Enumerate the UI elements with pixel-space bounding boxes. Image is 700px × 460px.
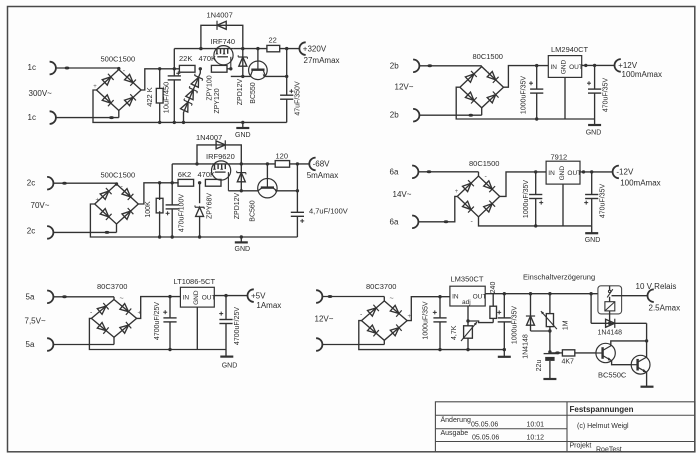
svg-text:LT1086-5CT: LT1086-5CT	[174, 277, 216, 286]
zener ZPD12V (circuit 3)	[240, 164, 242, 191]
wire - regulator ground lead (circuit 2)	[564, 77, 566, 119]
resistor 470K	[211, 65, 227, 72]
wire - pot to bottom rail (circuit 6)	[467, 338, 469, 349]
wire - bridge right corner to top rail (circuit 4)	[500, 172, 546, 197]
capacitor 470uF/100V	[171, 181, 174, 184]
wire - output rail (circuit 6)	[485, 293, 598, 295]
svg-text:5a: 5a	[26, 340, 35, 349]
svg-text:1N4007: 1N4007	[196, 133, 222, 142]
svg-text:GND: GND	[559, 166, 566, 181]
wire - rail to output terminal (circuit 1)	[280, 48, 300, 50]
svg-text:+12V: +12V	[618, 61, 638, 70]
ground (below output cap, circuit 6)	[503, 350, 505, 357]
svg-text:470uF/35V: 470uF/35V	[600, 184, 607, 219]
wire - top input to bridge (circuit 6)	[323, 296, 385, 298]
svg-text:6a: 6a	[390, 218, 399, 227]
svg-text:+: +	[455, 189, 459, 195]
svg-text:300V~: 300V~	[29, 89, 53, 98]
wire - top rail source side (circuit 1)	[233, 48, 267, 50]
wire - relay branch vertical (circuit 6)	[589, 292, 592, 295]
wire - relay output (circuit 6)	[612, 295, 648, 297]
capacitor 1000uF/35V (circuit 2)	[535, 64, 538, 67]
wire - bridge bottom stub (circuit 6)	[383, 340, 385, 344]
svg-text:+320V: +320V	[303, 45, 327, 54]
svg-text:12V~: 12V~	[315, 315, 334, 324]
svg-text:80C1500: 80C1500	[469, 159, 499, 168]
transistor BC550 (circuit 1)	[256, 47, 259, 50]
svg-text:22K: 22K	[179, 54, 192, 63]
wire - bridge top stub (circuit 6)	[383, 297, 385, 302]
transistor BC550C (first)	[596, 343, 615, 362]
svg-text:1000uF/35V: 1000uF/35V	[511, 306, 518, 344]
ground (transistor, circuit 6)	[641, 386, 654, 388]
svg-text:100mAmax: 100mAmax	[622, 70, 662, 79]
resistor 470K (circuit 3)	[205, 179, 221, 186]
wire - bottom input to bridge (circuit 3)	[54, 231, 117, 233]
wire - top rail drain side (circuit 3)	[172, 163, 211, 165]
node junction 6K2/470K (circuit 3)	[198, 181, 201, 184]
wire - second collector (circuit 6)	[646, 323, 648, 357]
zener chain ZPY100/ZPY120 (circuit 1)	[184, 69, 201, 123]
svg-text:7,5V~: 7,5V~	[25, 317, 46, 326]
svg-text:BC550: BC550	[250, 82, 257, 104]
svg-text:~: ~	[390, 296, 394, 303]
wire - bridge bottom corner to bottom rail (circuit 4)	[479, 217, 536, 226]
svg-text:~: ~	[120, 296, 124, 303]
relay K1 box	[598, 286, 622, 314]
wire - top input to bridge (circuit 1)	[56, 67, 119, 69]
svg-text:Einschaltverzögerung: Einschaltverzögerung	[523, 273, 595, 282]
wire - bridge minus to bottom rail (circuit 6)	[359, 321, 440, 350]
svg-text:OUT: OUT	[569, 64, 583, 71]
wire - bridge bottom corner stub (circuit 1)	[118, 111, 120, 118]
svg-text:1c: 1c	[28, 63, 36, 72]
svg-text:500C1500: 500C1500	[101, 55, 136, 64]
resistor 22 (circuit 1)	[267, 45, 280, 51]
wire - bridge minus path to bottom rail (circuit 2)	[456, 87, 537, 119]
wire - output rail (circuit 4)	[580, 171, 613, 173]
wire - 4K7 to transistor base (circuit 6)	[575, 352, 596, 354]
svg-text:Projekt: Projekt	[570, 443, 592, 450]
wire - regulator ground lead (circuit 4)	[562, 184, 564, 226]
wire - bottom input to bridge (circuit 2)	[420, 114, 482, 116]
svg-text:GND: GND	[222, 363, 238, 370]
output terminal +12V	[615, 59, 621, 72]
svg-text:Festspannungen: Festspannungen	[570, 405, 634, 414]
capacitor 4700uF/25V (input, circuit 5)	[168, 295, 171, 298]
svg-text:OUT: OUT	[473, 293, 487, 300]
svg-text:240: 240	[490, 282, 497, 294]
svg-text:80C3700: 80C3700	[366, 282, 396, 291]
svg-text:5a: 5a	[26, 293, 35, 302]
wire - bridge bottom stub (circuit 3)	[116, 224, 118, 232]
svg-text:10 V Relais: 10 V Relais	[636, 282, 677, 291]
svg-text:1c: 1c	[28, 113, 36, 122]
capacitor 47uF/350V	[285, 47, 288, 50]
wire - top input to bridge (circuit 4)	[419, 171, 479, 173]
ground (22u, circuit 6)	[543, 378, 556, 380]
svg-text:+5V: +5V	[251, 291, 266, 300]
svg-text:GND: GND	[193, 290, 200, 305]
svg-text:ZPY68V: ZPY68V	[206, 193, 213, 219]
svg-text:1000uF/35V: 1000uF/35V	[523, 180, 530, 218]
svg-text:IN: IN	[548, 170, 555, 177]
wire - top rail drain side (circuit 1)	[174, 48, 213, 50]
wire - rail to output terminal (circuit 3)	[290, 163, 310, 165]
wire - top input to bridge (circuit 2)	[420, 65, 482, 67]
svg-text:470uF/100V: 470uF/100V	[178, 194, 185, 232]
wire - bottom input to bridge (circuit 6)	[323, 344, 385, 346]
svg-text:BC550C: BC550C	[598, 371, 627, 380]
resistor 422 K	[158, 67, 161, 70]
svg-text:1N4007: 1N4007	[207, 11, 233, 20]
svg-text:OUT: OUT	[202, 295, 216, 302]
wire - bottom input to bridge (circuit 5)	[54, 344, 115, 346]
svg-text:2.5Amax: 2.5Amax	[649, 304, 681, 313]
svg-text:100K: 100K	[145, 201, 152, 218]
svg-text:-68V: -68V	[313, 160, 331, 169]
svg-text:14V~: 14V~	[393, 190, 412, 199]
svg-text:ZPD12V: ZPD12V	[234, 192, 241, 219]
svg-text:10:01: 10:01	[527, 421, 545, 428]
svg-text:1000uF/35V: 1000uF/35V	[521, 76, 528, 114]
resistor 100K	[158, 181, 161, 184]
wire - second emitter to ground (circuit 6)	[646, 372, 648, 386]
svg-text:GND: GND	[235, 246, 251, 253]
svg-text:422 K: 422 K	[145, 87, 154, 107]
svg-text:ZPD12V: ZPD12V	[237, 78, 244, 105]
connector (bottom input, circuit 6)	[316, 338, 322, 351]
capacitor 470uF/35V (circuit 2)	[593, 64, 596, 67]
svg-text:adj: adj	[462, 299, 471, 306]
capacitor 10uF/450	[173, 67, 176, 70]
capacitor 1000uF/35V (input, circuit 6)	[438, 295, 441, 298]
svg-text:ZPY120: ZPY120	[214, 88, 221, 113]
wire - bridge top stub (circuit 5)	[113, 297, 115, 300]
wire - top input to bridge (circuit 3)	[54, 182, 117, 184]
svg-text:LM350CT: LM350CT	[451, 274, 484, 283]
svg-text:+: +	[96, 198, 100, 204]
wire - first emitter to second base (circuit 6)	[612, 361, 632, 365]
svg-text:1000uF/35V: 1000uF/35V	[423, 301, 430, 339]
ground (circuit 2)	[594, 119, 596, 125]
wire - top rail source side (circuit 3)	[231, 163, 275, 165]
svg-text:5mAmax: 5mAmax	[307, 171, 339, 180]
svg-text:100mAmax: 100mAmax	[620, 178, 660, 187]
svg-text:1N4148: 1N4148	[598, 330, 623, 337]
wire - output rail (circuit 5)	[214, 295, 247, 297]
svg-text:BC560: BC560	[250, 200, 257, 222]
wire - adj to 240 jog (circuit 6)	[468, 321, 493, 323]
wire - top input to bridge (circuit 5)	[54, 296, 115, 298]
wire - output rail (circuit 2)	[582, 64, 615, 66]
svg-text:05.05.06: 05.05.06	[472, 434, 499, 441]
wire - rail to gate drop (circuit 1)	[227, 68, 231, 70]
transistor BC560	[266, 162, 269, 165]
svg-text:2b: 2b	[390, 111, 399, 120]
capacitor 4,7uF/100V	[296, 162, 299, 165]
svg-text:70V~: 70V~	[31, 201, 50, 210]
capacitor 470uF/35V (circuit 4)	[590, 170, 593, 173]
relay coil	[605, 302, 615, 311]
svg-text:7912: 7912	[551, 153, 568, 162]
resistor 4K7	[550, 352, 563, 354]
svg-text:IN: IN	[452, 293, 459, 300]
svg-text:80C3700: 80C3700	[97, 282, 127, 291]
wire - bottom rail (circuit 1)	[160, 121, 287, 123]
output connector 10 V Relais	[648, 289, 654, 302]
wire - bottom rail (circuit 2)	[537, 118, 595, 120]
output terminal +320V	[299, 42, 305, 55]
svg-text:1N4148: 1N4148	[523, 334, 530, 359]
wire - bridge bottom stub (circuit 5)	[113, 337, 115, 344]
output terminal -12V	[613, 166, 619, 179]
wire - bridge plus to resistor rail (circuit 1)	[141, 69, 180, 90]
svg-text:GND: GND	[235, 132, 251, 139]
svg-text:47uF/350V: 47uF/350V	[295, 81, 302, 116]
wire - bottom rail (circuit 6)	[440, 349, 504, 351]
ground (circuit 5)	[225, 350, 227, 357]
capacitor 22u	[544, 353, 557, 355]
svg-text:OUT: OUT	[567, 170, 581, 177]
wire - bridge output to resistor rail (circuit 3)	[138, 183, 178, 204]
svg-text:RoeTest: RoeTest	[596, 446, 622, 453]
wire - first collector up (circuit 6)	[611, 341, 647, 346]
wire - adj lead (circuit 6)	[467, 306, 469, 326]
connector (top input, circuit 6)	[316, 290, 322, 303]
wire - bottom input to bridge left corner (circuit 4)	[419, 196, 458, 221]
svg-text:-12V: -12V	[616, 168, 634, 177]
wire - bottom input to bridge (circuit 1)	[56, 117, 119, 119]
transistor BC550C (second)	[631, 355, 650, 374]
output terminal +5V	[248, 289, 254, 302]
relay contact	[609, 286, 611, 290]
svg-text:6a: 6a	[390, 167, 399, 176]
title block frame	[435, 402, 695, 452]
svg-text:LM2940CT: LM2940CT	[551, 45, 589, 54]
svg-text:IN: IN	[183, 295, 190, 302]
svg-text:(c) Helmut Weigl: (c) Helmut Weigl	[577, 423, 629, 430]
resistor 240	[492, 294, 494, 307]
ground (circuit 4)	[591, 226, 593, 233]
svg-text:GND: GND	[586, 129, 602, 136]
svg-text:12V~: 12V~	[395, 83, 414, 92]
svg-text:+: +	[93, 84, 97, 90]
svg-text:Ausgabe: Ausgabe	[441, 430, 469, 437]
svg-text:GND: GND	[561, 59, 568, 74]
svg-text:ZPY100: ZPY100	[207, 75, 214, 100]
wire - bridge minus to bottom rail (circuit 5)	[89, 318, 170, 349]
resistor 22K	[179, 65, 195, 72]
resistor 120 (circuit 3)	[275, 161, 289, 168]
wire - bridge to bottom rail (circuit 3)	[90, 204, 159, 237]
svg-text:4K7: 4K7	[562, 358, 575, 365]
svg-text:1M: 1M	[563, 320, 570, 330]
wire - bridge plus to top rail (circuit 6)	[407, 297, 450, 321]
svg-text:2c: 2c	[27, 179, 35, 188]
wire - bottom rail (circuit 5)	[170, 349, 226, 351]
svg-text:GND: GND	[585, 237, 601, 244]
svg-text:4,7K: 4,7K	[451, 325, 458, 340]
svg-text:22u: 22u	[536, 360, 543, 372]
svg-text:1Amax: 1Amax	[256, 301, 281, 310]
svg-text:IRF9620: IRF9620	[206, 152, 235, 161]
svg-text:4700uF/25V: 4700uF/25V	[154, 302, 161, 340]
potentiometer 1M	[548, 292, 551, 295]
svg-text:IN: IN	[551, 64, 558, 71]
capacitor 4700uF/25V (output, circuit 5)	[224, 294, 227, 297]
svg-text:27mAmax: 27mAmax	[304, 56, 340, 65]
zener ZPY68V	[199, 183, 201, 203]
node RC junction (circuit 6)	[548, 350, 551, 353]
wire - bottom rail (circuit 3)	[160, 236, 298, 238]
capacitor 1000uF/35V (output, circuit 6)	[503, 292, 506, 295]
svg-text:2b: 2b	[390, 62, 399, 71]
wire - bridge minus path to bottom rail (circuit 1)	[93, 90, 160, 122]
svg-text:4,7uF/100V: 4,7uF/100V	[309, 207, 348, 216]
svg-text:2c: 2c	[27, 227, 35, 236]
svg-text:IRF740: IRF740	[211, 37, 236, 46]
wire - bridge plus to top rail (circuit 5)	[136, 297, 180, 319]
output terminal -68V	[309, 158, 315, 171]
wire - regulator ground lead (circuit 5)	[196, 307, 198, 349]
svg-text:6K2: 6K2	[178, 170, 191, 179]
svg-text:Änderung: Änderung	[441, 416, 471, 424]
svg-text:4700uF/25V: 4700uF/25V	[234, 307, 241, 345]
ground (circuit 3)	[240, 235, 243, 238]
ground (circuit 1)	[241, 121, 244, 124]
wire - 1N4148 to 1M node (circuit 6)	[531, 330, 550, 332]
wire - bridge plus to top rail (circuit 2)	[504, 66, 549, 88]
svg-text:22: 22	[269, 36, 277, 45]
diode 1N4148 (flyback)	[591, 322, 647, 324]
wire - bottom rail (circuit 4)	[536, 225, 592, 227]
diode 1N4148 (timing, circuit 6)	[529, 292, 532, 295]
svg-text:500C1500: 500C1500	[101, 171, 136, 180]
svg-text:10uF/450: 10uF/450	[162, 82, 171, 114]
wire - bridge top stub (circuit 4)	[478, 172, 480, 176]
wire - coil to flyback diode (circuit 6)	[609, 311, 611, 323]
potentiometer 4,7K	[464, 326, 473, 338]
capacitor 1000uF/35V (circuit 4)	[534, 170, 537, 173]
svg-text:10:12: 10:12	[527, 434, 545, 441]
svg-text:470uF/35V: 470uF/35V	[602, 78, 609, 113]
resistor 6K2	[178, 179, 194, 186]
wire - bridge bottom stub (circuit 2)	[481, 108, 483, 115]
svg-text:05.05.06: 05.05.06	[471, 421, 498, 428]
node junction 22K/470K	[199, 67, 202, 70]
svg-text:120: 120	[276, 151, 289, 160]
svg-text:80C1500: 80C1500	[473, 52, 503, 61]
zener ZPD12V (circuit 1)	[242, 49, 244, 77]
